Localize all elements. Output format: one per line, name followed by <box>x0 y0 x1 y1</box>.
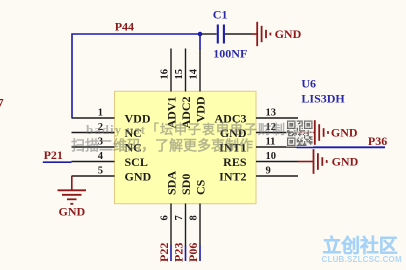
svg-text:SCL: SCL <box>125 155 148 169</box>
svg-text:14: 14 <box>189 68 200 79</box>
svg-text:GND: GND <box>332 155 359 169</box>
svg-text:1: 1 <box>98 107 103 118</box>
svg-text:100NF: 100NF <box>213 47 247 61</box>
svg-text:P23: P23 <box>172 243 186 262</box>
svg-text:P21: P21 <box>44 148 63 162</box>
svg-text:GND: GND <box>331 126 358 140</box>
svg-text:5: 5 <box>98 165 103 176</box>
svg-text:9: 9 <box>266 165 271 176</box>
svg-text:P36: P36 <box>368 134 387 148</box>
svg-text:6: 6 <box>160 215 171 220</box>
svg-text:7: 7 <box>0 96 4 110</box>
svg-text:badiy ust「坛申子衷申电子财制作: badiy ust「坛申子衷申电子财制作 <box>86 122 300 137</box>
svg-text:C1: C1 <box>213 7 228 21</box>
svg-text:LIS3DH: LIS3DH <box>301 92 345 106</box>
svg-text:P22: P22 <box>157 243 171 262</box>
svg-text:INT2: INT2 <box>219 170 246 184</box>
svg-text:P06: P06 <box>186 243 200 262</box>
svg-text:CS: CS <box>193 179 207 195</box>
svg-text:7: 7 <box>174 215 185 220</box>
svg-text:GND: GND <box>59 205 86 219</box>
svg-text:P44: P44 <box>115 20 134 34</box>
svg-text:VDD: VDD <box>193 96 207 122</box>
svg-text:CLUB.SZLCSC.COM: CLUB.SZLCSC.COM <box>322 255 402 264</box>
svg-text:8: 8 <box>189 215 200 220</box>
svg-text:RES: RES <box>223 155 247 169</box>
svg-text:立创社区: 立创社区 <box>323 234 398 256</box>
svg-text:13: 13 <box>266 107 277 118</box>
svg-text:SD0: SD0 <box>179 174 193 195</box>
svg-text:U6: U6 <box>301 77 316 91</box>
svg-text:SDA: SDA <box>164 171 178 195</box>
svg-text:16: 16 <box>160 69 171 80</box>
svg-text:11: 11 <box>266 136 276 147</box>
svg-text:扫描二维码，了解更多衷制作: 扫描二维码，了解更多衷制作 <box>71 138 253 155</box>
svg-text:GND: GND <box>125 170 152 184</box>
svg-text:10: 10 <box>266 151 277 162</box>
svg-text:15: 15 <box>174 69 185 80</box>
svg-text:GND: GND <box>275 27 302 41</box>
